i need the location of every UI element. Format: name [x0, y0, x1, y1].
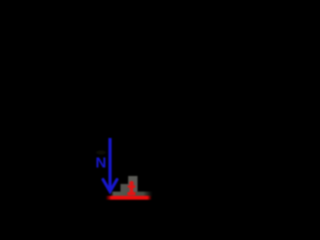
red pawn glyph: collar — [128, 185, 136, 188]
wire / arrow shaft — [108, 138, 111, 190]
gray step block (lower left step) — [121, 184, 129, 196]
red pawn glyph: head — [129, 181, 133, 185]
gray step block (upper right step) — [128, 176, 137, 196]
faint smudge above label N — [96, 151, 106, 155]
gray strip (baseline platform) — [111, 192, 153, 196]
svg-text:N: N — [96, 154, 107, 171]
red pawn glyph: stem — [130, 187, 133, 193]
red pawn glyph: base — [127, 192, 135, 195]
arrowhead (downward) — [103, 180, 117, 192]
red thick baseline — [106, 196, 153, 200]
